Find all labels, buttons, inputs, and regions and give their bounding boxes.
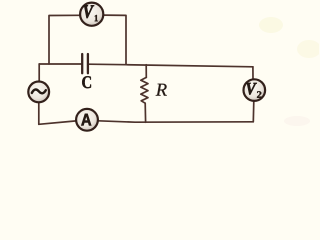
label R: [156, 84, 167, 96]
wire: left branch from AC source down to bottom-left corner: [38, 102, 40, 124]
wire: right branch from top-right corner down to voltmeter V2: [252, 67, 254, 80]
voltmeter V2: [244, 79, 266, 101]
AC source: [28, 82, 49, 103]
wire: right branch from voltmeter V2 down to bottom-right corner: [252, 101, 255, 122]
wire: R branch from resistor down to bottom wire: [144, 103, 146, 122]
wire: main top horizontal, left of capacitor C: [39, 63, 81, 65]
wire: bottom wire, left corner to ammeter A: [39, 121, 76, 124]
voltmeter V1: [80, 3, 103, 26]
wire: V1 branch left vertical and top-left horizontal: [49, 15, 80, 64]
paper background: [0, 0, 319, 139]
wire: R branch from top wire down to resistor: [145, 65, 147, 78]
wire: main top horizontal, right of capacitor C to top-right corner: [89, 64, 253, 67]
wire: left branch from top wire down to AC source: [38, 64, 40, 81]
label C: [82, 76, 91, 88]
resistor R zigzag: [141, 77, 148, 103]
ammeter A: [76, 109, 98, 131]
wire: bottom wire, ammeter A to bottom-right corner: [98, 121, 253, 122]
capacitor C plates: [82, 54, 88, 73]
wire: V1 branch top-right horizontal and right vertical: [104, 15, 126, 65]
